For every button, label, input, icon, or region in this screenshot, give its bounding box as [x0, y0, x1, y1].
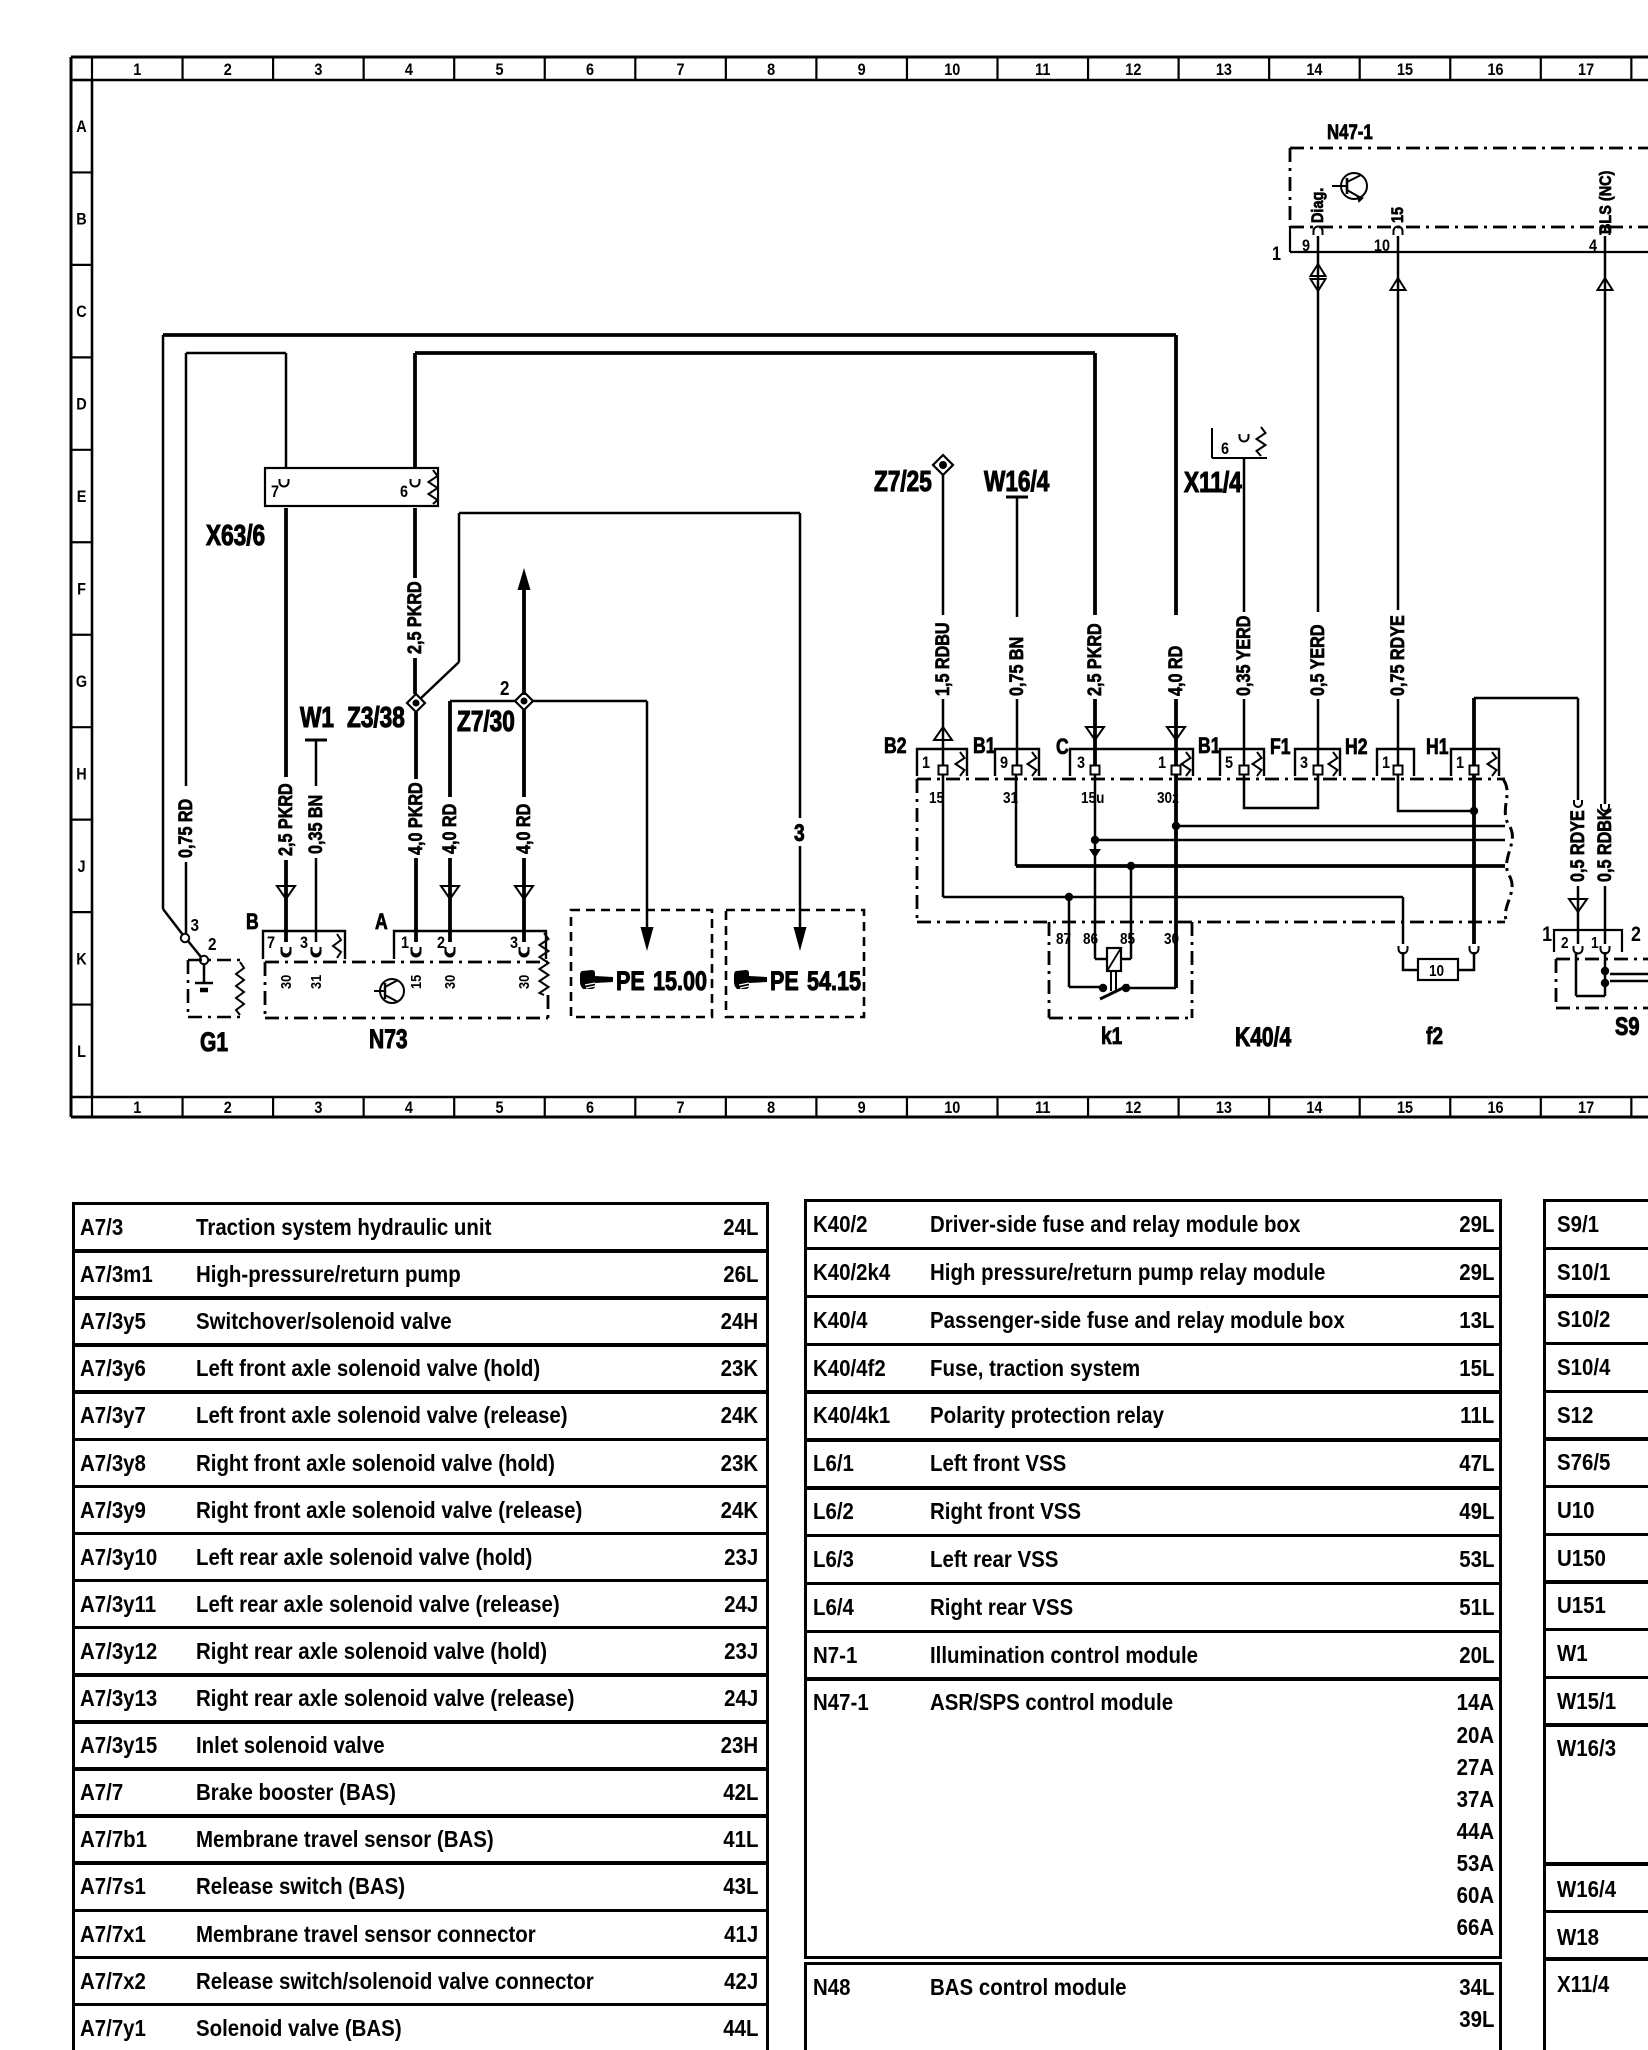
svg-text:7: 7	[677, 1099, 685, 1117]
svg-text:B: B	[76, 211, 86, 229]
svg-text:Z7/25: Z7/25	[874, 464, 932, 497]
svg-text:15u: 15u	[1081, 790, 1104, 807]
svg-text:A: A	[375, 910, 388, 934]
svg-text:N47-1: N47-1	[1327, 121, 1373, 144]
svg-text:0,75 BN: 0,75 BN	[1006, 637, 1028, 696]
svg-text:5: 5	[495, 61, 503, 79]
svg-text:10: 10	[1429, 963, 1444, 980]
svg-text:D: D	[76, 396, 86, 414]
svg-text:1: 1	[133, 61, 141, 79]
svg-text:G: G	[76, 673, 87, 691]
svg-text:W16/4: W16/4	[984, 464, 1050, 497]
svg-text:1: 1	[922, 754, 930, 772]
svg-text:X11/4: X11/4	[1184, 465, 1242, 498]
svg-text:3: 3	[510, 934, 518, 952]
svg-text:H2: H2	[1345, 735, 1367, 759]
svg-text:0,75 RDYE: 0,75 RDYE	[1387, 615, 1409, 696]
svg-text:2: 2	[1631, 923, 1641, 947]
svg-text:X63/6: X63/6	[206, 518, 265, 551]
svg-text:F: F	[77, 580, 86, 598]
svg-text:2: 2	[224, 61, 232, 79]
svg-text:15: 15	[1397, 61, 1413, 79]
svg-text:2: 2	[437, 934, 445, 952]
svg-text:2,5 PKRD: 2,5 PKRD	[1084, 623, 1106, 696]
svg-text:2: 2	[208, 934, 217, 954]
svg-text:B1: B1	[1198, 734, 1220, 758]
svg-text:1: 1	[1542, 923, 1552, 947]
svg-text:30: 30	[441, 975, 458, 989]
svg-text:2,5 PKRD: 2,5 PKRD	[404, 581, 426, 654]
svg-text:2: 2	[500, 677, 509, 700]
svg-text:0,75 RD: 0,75 RD	[175, 799, 197, 858]
svg-text:10: 10	[944, 1099, 960, 1117]
svg-text:4: 4	[405, 61, 413, 79]
svg-text:Z3/38: Z3/38	[347, 700, 405, 733]
svg-text:Z7/30: Z7/30	[457, 704, 515, 737]
svg-text:3: 3	[1077, 754, 1085, 772]
svg-text:5: 5	[495, 1099, 503, 1117]
svg-text:L: L	[77, 1043, 86, 1061]
svg-text:3: 3	[314, 61, 322, 79]
svg-text:PE: PE	[616, 967, 645, 997]
svg-text:15: 15	[407, 975, 424, 989]
svg-text:4,0 RD: 4,0 RD	[439, 804, 461, 854]
svg-text:E: E	[77, 488, 87, 506]
svg-text:2: 2	[224, 1099, 232, 1117]
svg-text:C: C	[76, 303, 86, 321]
svg-text:1: 1	[1158, 754, 1166, 772]
svg-text:6: 6	[1221, 440, 1229, 458]
svg-text:1: 1	[1456, 754, 1464, 772]
svg-text:13: 13	[1216, 1099, 1232, 1117]
svg-text:86: 86	[1083, 931, 1098, 948]
svg-text:1,5 RDBU: 1,5 RDBU	[932, 622, 954, 696]
svg-text:6: 6	[400, 483, 408, 501]
svg-text:0,5 RDYE: 0,5 RDYE	[1567, 810, 1589, 882]
svg-text:B2: B2	[884, 734, 906, 758]
svg-text:7: 7	[267, 934, 275, 952]
svg-text:9: 9	[858, 1099, 866, 1117]
svg-text:15: 15	[1397, 1099, 1413, 1117]
svg-text:12: 12	[1125, 61, 1141, 79]
svg-text:1: 1	[401, 934, 409, 952]
svg-text:S9: S9	[1615, 1013, 1639, 1041]
svg-text:0,35 YERD: 0,35 YERD	[1233, 616, 1255, 696]
svg-text:0,35 BN: 0,35 BN	[305, 795, 327, 854]
svg-text:PE: PE	[770, 967, 799, 997]
svg-text:4,0 RD: 4,0 RD	[513, 804, 535, 854]
svg-text:15.00: 15.00	[653, 967, 707, 997]
svg-text:1: 1	[1591, 935, 1599, 952]
svg-text:9: 9	[1000, 754, 1008, 772]
svg-text:54.15: 54.15	[807, 967, 861, 997]
svg-text:14: 14	[1306, 1099, 1322, 1117]
svg-text:N73: N73	[369, 1025, 408, 1055]
svg-text:0,5 RDBK: 0,5 RDBK	[1594, 808, 1616, 882]
svg-text:30: 30	[277, 975, 294, 989]
svg-text:17: 17	[1578, 61, 1594, 79]
svg-text:2,5 PKRD: 2,5 PKRD	[275, 783, 297, 856]
svg-text:3: 3	[794, 819, 805, 847]
svg-text:30: 30	[1164, 931, 1179, 948]
svg-text:85: 85	[1120, 931, 1135, 948]
svg-text:3: 3	[190, 915, 199, 935]
svg-text:5: 5	[1225, 754, 1233, 772]
svg-text:C: C	[1056, 735, 1069, 759]
svg-text:J: J	[77, 858, 85, 876]
svg-text:Diag.: Diag.	[1309, 188, 1327, 223]
svg-text:B: B	[246, 910, 259, 934]
svg-text:4,0 PKRD: 4,0 PKRD	[405, 782, 427, 855]
svg-text:f2: f2	[1426, 1022, 1443, 1050]
svg-text:BLS (NC): BLS (NC)	[1597, 171, 1615, 234]
svg-text:W1: W1	[300, 700, 334, 733]
svg-text:G1: G1	[200, 1028, 228, 1058]
svg-text:7: 7	[677, 61, 685, 79]
svg-text:13: 13	[1216, 61, 1232, 79]
svg-text:2: 2	[1561, 935, 1569, 952]
svg-text:A: A	[76, 118, 86, 136]
svg-text:87: 87	[1056, 931, 1071, 948]
svg-text:12: 12	[1125, 1099, 1141, 1117]
svg-text:11: 11	[1035, 1099, 1050, 1117]
svg-text:k1: k1	[1101, 1022, 1122, 1050]
svg-text:16: 16	[1487, 61, 1503, 79]
svg-text:8: 8	[767, 61, 775, 79]
svg-text:1: 1	[1382, 754, 1390, 772]
svg-text:17: 17	[1578, 1099, 1594, 1117]
svg-text:1: 1	[133, 1099, 141, 1117]
svg-text:10: 10	[944, 61, 960, 79]
svg-text:3: 3	[314, 1099, 322, 1117]
svg-text:30: 30	[515, 975, 532, 989]
svg-text:H1: H1	[1426, 735, 1448, 759]
svg-text:14: 14	[1306, 61, 1322, 79]
svg-text:3: 3	[300, 934, 308, 952]
svg-text:15: 15	[1389, 207, 1407, 223]
svg-text:0,5 YERD: 0,5 YERD	[1307, 625, 1329, 696]
svg-text:4: 4	[405, 1099, 413, 1117]
svg-text:8: 8	[767, 1099, 775, 1117]
svg-text:31: 31	[307, 975, 324, 989]
svg-text:F1: F1	[1270, 735, 1291, 759]
svg-text:9: 9	[858, 61, 866, 79]
svg-text:6: 6	[586, 61, 594, 79]
svg-text:H: H	[76, 765, 86, 783]
svg-text:K40/4: K40/4	[1235, 1023, 1292, 1053]
svg-text:6: 6	[586, 1099, 594, 1117]
svg-text:4,0 RD: 4,0 RD	[1165, 646, 1187, 696]
svg-text:7: 7	[271, 483, 279, 501]
svg-text:B1: B1	[973, 734, 995, 758]
svg-text:3: 3	[1300, 754, 1308, 772]
svg-text:16: 16	[1487, 1099, 1503, 1117]
svg-text:1: 1	[1272, 243, 1281, 265]
svg-text:11: 11	[1035, 61, 1050, 79]
svg-text:K: K	[76, 950, 87, 968]
